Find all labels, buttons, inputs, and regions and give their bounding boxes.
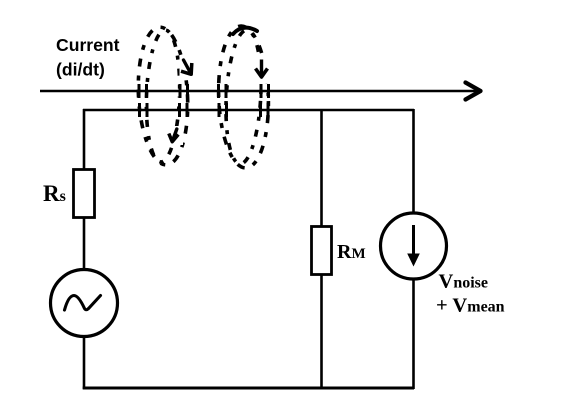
resistor RM xyxy=(312,227,332,275)
flux loop 1 (dashed ellipse pair) xyxy=(135,26,191,166)
arrow inside current source xyxy=(412,225,415,256)
label Current (di/dt) xyxy=(56,35,120,80)
sine symbol inside AC source xyxy=(65,296,101,311)
wire top horizontal xyxy=(83,109,414,112)
flux loop 2 (dashed ellipse pair) xyxy=(216,25,271,169)
wire below AC source xyxy=(83,336,86,389)
bold arc at top of loop 2 xyxy=(233,28,257,34)
svg-text:Vnoise: Vnoise xyxy=(439,271,488,293)
wire left vertical upper xyxy=(83,109,86,170)
wire between Rs and source xyxy=(83,217,86,270)
tick marks where loop2 crosses arrow line xyxy=(219,84,269,98)
svg-text:+ Vmean: + Vmean xyxy=(436,295,505,317)
wire below current source xyxy=(412,279,415,389)
AC source V1 xyxy=(51,270,118,337)
tick marks where loop1 crosses top wire xyxy=(140,103,188,117)
wire bottom horizontal xyxy=(83,387,414,390)
current source U1 (Vnoise + Vmean) xyxy=(381,213,447,279)
arrowhead of current arrow xyxy=(466,83,481,100)
wire middle vertical lower xyxy=(320,274,323,389)
wire current arrow line xyxy=(40,90,477,93)
wire right vertical upper xyxy=(412,109,415,214)
wire middle vertical upper xyxy=(320,110,323,227)
tick marks where loop2 crosses top wire xyxy=(219,103,268,117)
arrowhead on loop2 upper right xyxy=(252,58,274,84)
arrowhead on loop1 upper right xyxy=(180,56,197,78)
resistor Rs xyxy=(74,170,95,218)
arrowhead on loop1 bottom xyxy=(166,126,184,145)
tick marks where loop1 crosses arrow line xyxy=(139,84,188,98)
svg-text:(di/dt): (di/dt) xyxy=(56,60,105,80)
svg-text:Current: Current xyxy=(56,35,120,55)
